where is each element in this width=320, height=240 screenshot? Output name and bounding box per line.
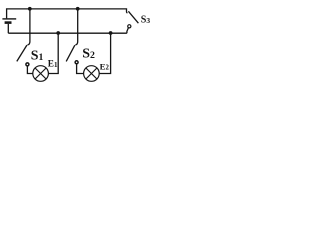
switch S3 bottom contact (128, 25, 131, 28)
battery long plate (positive) (2, 18, 16, 20)
svg-text:E1: E1 (48, 60, 58, 70)
node junction dot top rail right (76, 7, 80, 11)
lamp E1 (33, 66, 49, 82)
switch S3 lever (128, 11, 138, 23)
switch S1 bottom contact (26, 63, 29, 66)
wire branch 2 vertical with S2 top contact hook (75, 9, 77, 45)
svg-text:S3: S3 (141, 15, 150, 26)
wire S3 contact to rail (127, 28, 128, 34)
lamp E2 (84, 66, 100, 82)
wire second rail (8, 32, 127, 34)
switch S2 lever (66, 45, 75, 61)
wire E1 to second rail (48, 33, 58, 73)
wire branch 1 vertical with S1 top contact hook (27, 9, 30, 45)
switch S2 bottom contact (75, 61, 78, 64)
wire E2 to second rail (99, 33, 110, 73)
battery short plate (negative) (5, 21, 12, 24)
node junction dot top rail left (28, 7, 32, 11)
battery bottom lead wire (7, 24, 9, 33)
wire S1 to lamp E1 (27, 66, 32, 74)
wire S2 to lamp E2 (77, 64, 84, 74)
node junction dot second rail left (56, 31, 60, 35)
battery G left: top lead wire and top rail (7, 9, 128, 19)
node junction dot second rail right (109, 31, 113, 35)
background (0, 0, 150, 83)
switch S1 lever (17, 45, 27, 61)
